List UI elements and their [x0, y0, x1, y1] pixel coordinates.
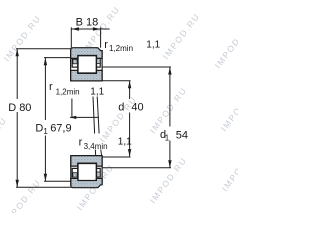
svg-text:1,2min: 1,2min — [109, 44, 133, 53]
svg-text:IMPOD.RU: IMPOD.RU — [148, 85, 189, 135]
svg-text:1,1: 1,1 — [146, 40, 160, 51]
svg-text:IMPOD.RU: IMPOD.RU — [2, 13, 43, 63]
svg-text:D 80: D 80 — [8, 102, 31, 114]
svg-text:1: 1 — [43, 127, 48, 136]
svg-text:IMPOD.RU: IMPOD.RU — [148, 155, 189, 205]
svg-text:1,1: 1,1 — [90, 87, 104, 98]
svg-text:r: r — [79, 137, 83, 149]
svg-text:B 18: B 18 — [76, 17, 99, 29]
svg-text:IMPOD.RU: IMPOD.RU — [161, 11, 202, 61]
svg-text:54: 54 — [176, 129, 188, 141]
svg-text:40: 40 — [131, 102, 143, 114]
svg-text:67,9: 67,9 — [50, 122, 71, 134]
svg-text:1,2min: 1,2min — [56, 87, 80, 96]
svg-text:r: r — [104, 39, 108, 51]
svg-text:1: 1 — [165, 134, 170, 143]
svg-text:IMPOD.RU: IMPOD.RU — [219, 83, 238, 133]
svg-text:IMPOD.RU: IMPOD.RU — [220, 143, 238, 193]
svg-text:IMPOD.RU: IMPOD.RU — [213, 20, 238, 70]
svg-text:d: d — [118, 102, 124, 114]
svg-text:IMPOD.RU: IMPOD.RU — [0, 115, 9, 165]
svg-text:1,1: 1,1 — [118, 136, 132, 147]
svg-text:D: D — [35, 122, 43, 134]
svg-text:IMPOD.RU: IMPOD.RU — [2, 177, 43, 213]
svg-text:r: r — [49, 81, 53, 93]
svg-text:3,4min: 3,4min — [84, 142, 108, 151]
